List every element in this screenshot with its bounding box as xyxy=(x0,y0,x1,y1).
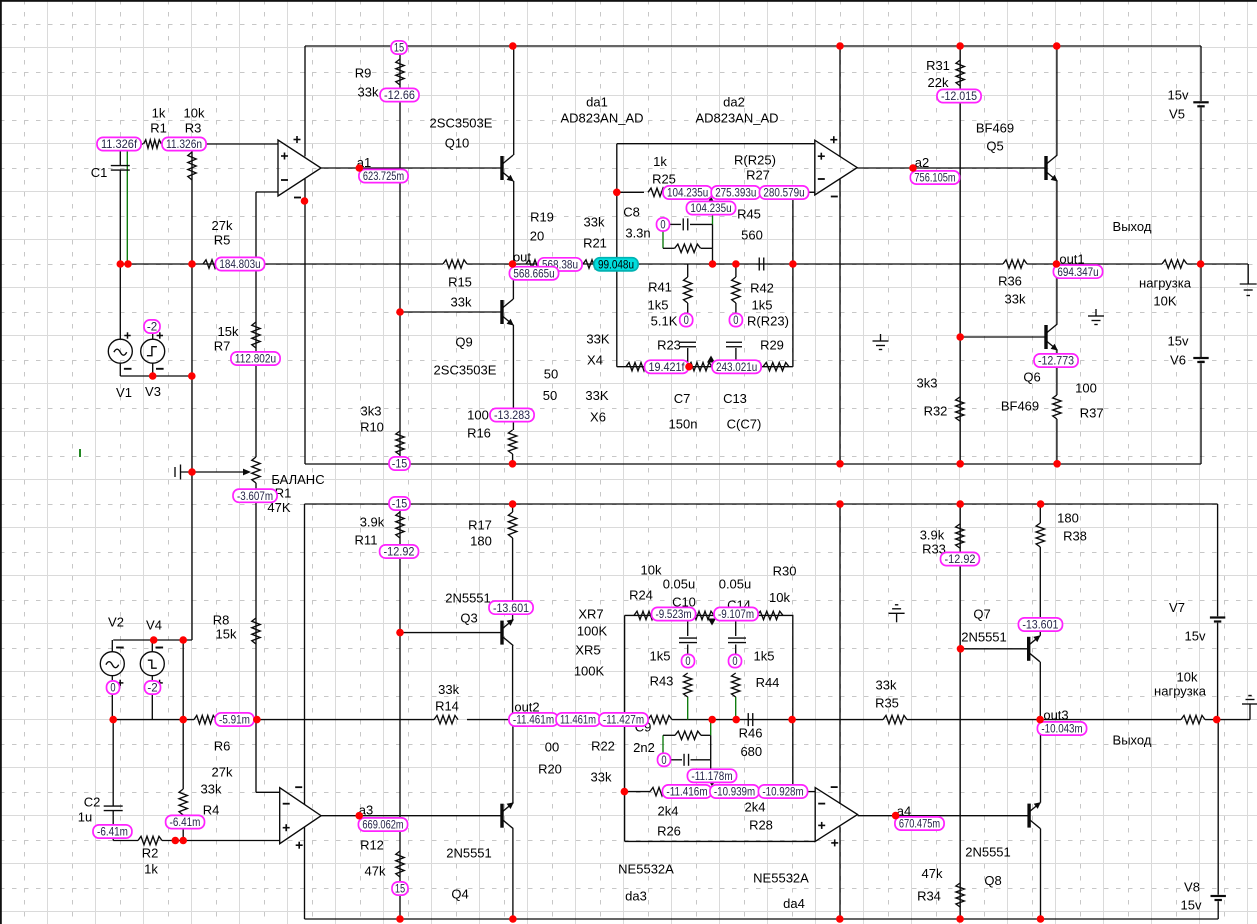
svg-text:R2: R2 xyxy=(142,846,159,861)
wire R4 column upper xyxy=(182,640,184,789)
text R45 ref xyxy=(737,207,761,222)
svg-text:0: 0 xyxy=(110,681,116,695)
label 99.048u cyan xyxy=(594,258,638,272)
label 280.579u xyxy=(759,186,808,200)
text 15v V7 xyxy=(1185,629,1206,644)
label -11.427m xyxy=(599,713,648,727)
text 100 R16 value xyxy=(467,408,489,423)
resistor R19 20 xyxy=(526,260,550,268)
svg-text:-9.523m: -9.523m xyxy=(655,607,691,621)
svg-text:C7: C7 xyxy=(674,391,691,406)
svg-text:-3.607m: -3.607m xyxy=(237,489,273,503)
node junction dot 12 xyxy=(188,468,196,476)
svg-text:V5: V5 xyxy=(1169,107,1185,122)
svg-text:33k: 33k xyxy=(451,295,472,310)
text 2N5551 Q3 xyxy=(445,591,491,606)
resistor R41 1k5 xyxy=(684,277,692,303)
text R11 ref xyxy=(355,533,378,548)
text 33k R14 value xyxy=(438,682,459,697)
node junction dot 15 xyxy=(150,636,158,644)
wire Q6 emitter to R37 xyxy=(1056,350,1058,395)
svg-text:-11.416m: -11.416m xyxy=(666,785,707,799)
svg-text:184.803u: 184.803u xyxy=(219,257,260,271)
transistor Q10 2SC3503E xyxy=(502,155,514,182)
wire R45 row left xyxy=(663,247,675,249)
node junction dot 27 xyxy=(1053,260,1061,268)
text R5 ref xyxy=(214,233,231,248)
svg-text:V4: V4 xyxy=(146,618,162,633)
text Выход ch2 xyxy=(1113,733,1152,748)
wire V1-V3 bottom row xyxy=(120,375,192,377)
resistor R16 100 xyxy=(508,430,516,454)
wire op-amp da4 supply upper xyxy=(839,504,841,804)
text 2N5551 Q8 xyxy=(965,845,1011,860)
svg-text:C2: C2 xyxy=(84,795,101,810)
node arrow marker da1 upper xyxy=(707,197,715,204)
node junction dot 21 xyxy=(709,260,717,268)
text C7 ref xyxy=(674,391,691,406)
wire R3 node to op-amp a1 +in xyxy=(206,143,278,145)
resistor R38 180 xyxy=(1036,523,1044,547)
wire ch1 box left edge lower xyxy=(304,179,306,464)
wire R4 column lower xyxy=(182,815,184,841)
text R1 pot ref xyxy=(275,486,292,501)
svg-text:2N5551: 2N5551 xyxy=(446,846,492,861)
node junction dot 53 xyxy=(179,837,187,845)
svg-text:0: 0 xyxy=(733,313,739,327)
svg-text:-2: -2 xyxy=(147,320,157,334)
resistor R15 33k xyxy=(443,260,467,268)
node junction dot 30 xyxy=(836,460,844,468)
wire R46 row left green xyxy=(662,735,664,753)
text X6 ref xyxy=(590,410,606,425)
wire Q8 collector to +15 rail xyxy=(1040,829,1042,919)
wire V5-V6 supply column lower xyxy=(1200,363,1202,464)
text AD823AN_AD da2 xyxy=(695,111,778,126)
text R27 ref xyxy=(746,168,770,183)
svg-text:694.347u: 694.347u xyxy=(1057,265,1098,279)
wire C8 to node green xyxy=(712,214,714,225)
node junction dot 2 xyxy=(124,260,132,268)
svg-text:0.05u: 0.05u xyxy=(663,577,696,592)
wire R7-R8 column xyxy=(255,483,257,792)
node junction dot 46 xyxy=(788,716,796,724)
svg-text:-6.41m: -6.41m xyxy=(170,815,201,829)
text a3 node xyxy=(359,803,373,818)
svg-text:-12.66: -12.66 xyxy=(384,88,415,102)
svg-text:R45: R45 xyxy=(737,207,761,222)
wire out row ch1 left segment xyxy=(120,263,443,265)
svg-text:2N5551: 2N5551 xyxy=(445,591,491,606)
text R26 ref xyxy=(657,824,681,839)
label 669.062m xyxy=(358,818,407,832)
text NE5532A da3 xyxy=(618,862,674,877)
wire balance wiper arrowhead xyxy=(243,469,251,476)
svg-text:670.475m: 670.475m xyxy=(899,817,940,831)
svg-text:R22: R22 xyxy=(591,739,615,754)
node junction dot 28 xyxy=(1197,260,1205,268)
node junction dot 41 xyxy=(956,915,964,923)
node junction dot 37 xyxy=(396,629,404,637)
resistor R46 680 xyxy=(675,731,701,739)
svg-text:R15: R15 xyxy=(448,275,472,290)
node junction dot 10 xyxy=(396,308,404,316)
node junction dot 18 xyxy=(179,716,187,724)
label 0 C14 xyxy=(729,654,742,668)
label -9.107m xyxy=(714,607,758,621)
svg-text:100: 100 xyxy=(1075,381,1097,396)
transistor Q7 2N5551 xyxy=(1029,635,1041,662)
svg-text:R32: R32 xyxy=(924,404,948,419)
text R34 ref xyxy=(917,889,941,904)
node junction dot 39 xyxy=(509,915,517,923)
label 184.803u xyxy=(215,257,264,271)
wire out3 row xyxy=(907,719,1181,721)
battery V7 15v xyxy=(1210,618,1225,622)
label 0 V2 xyxy=(107,681,120,695)
svg-text:XR5: XR5 xyxy=(575,643,600,658)
node junction dot 11 xyxy=(509,260,517,268)
svg-text:33k: 33k xyxy=(591,770,612,785)
svg-text:R36: R36 xyxy=(998,274,1022,289)
wire R2 to a3 +in xyxy=(162,840,280,842)
text XR7 xyxy=(578,607,603,622)
text Выход ch1 xyxy=(1113,219,1152,234)
text 15k R8 value xyxy=(216,627,237,642)
wire R25 row left xyxy=(617,191,644,193)
node junction dot 42 xyxy=(1037,915,1045,923)
resistor R24 10k xyxy=(634,611,658,619)
svg-text:R(R23): R(R23) xyxy=(747,314,789,329)
svg-text:15v: 15v xyxy=(1168,334,1189,349)
svg-text:00: 00 xyxy=(545,740,559,755)
svg-text:Q7: Q7 xyxy=(973,607,990,622)
wire R42 cap to bottom row xyxy=(735,348,737,367)
text 2SC3503E Q10 xyxy=(430,116,493,131)
text R19 ref xyxy=(530,210,554,225)
wire V2 top lead xyxy=(111,640,113,652)
text C14 ref xyxy=(727,598,751,613)
wire -in node column da3 xyxy=(792,615,794,786)
node junction dot 40 xyxy=(836,915,844,923)
svg-text:AD823AN_AD: AD823AN_AD xyxy=(560,111,643,126)
text 33k R15 value xyxy=(451,295,472,310)
resistor R35 33k xyxy=(883,715,907,723)
svg-text:-12.92: -12.92 xyxy=(384,545,415,559)
node arrow marker da3 upper xyxy=(708,619,716,626)
text C9 ref xyxy=(635,720,652,735)
svg-text:33k: 33k xyxy=(1005,292,1026,307)
svg-text:10k: 10k xyxy=(184,106,205,121)
node junction dot 16 xyxy=(179,636,187,644)
wire R43 to out2 row green xyxy=(687,697,689,720)
svg-text:R34: R34 xyxy=(917,889,941,904)
resistor R21 33k xyxy=(583,260,607,268)
text Q5 ref xyxy=(986,139,1003,154)
label 11.461m xyxy=(556,713,600,727)
wire Q9 base wire xyxy=(400,311,502,313)
svg-text:180: 180 xyxy=(1057,511,1079,526)
svg-text:-6.41m: -6.41m xyxy=(97,825,128,839)
text 2N5551 Q4 xyxy=(446,846,492,861)
text R17 ref xyxy=(468,518,492,533)
svg-text:15v: 15v xyxy=(1185,629,1206,644)
svg-text:623.725m: 623.725m xyxy=(363,169,404,183)
resistor R43 1k5 xyxy=(684,673,692,697)
svg-text:0: 0 xyxy=(661,753,667,767)
text 47K pot value xyxy=(267,500,290,515)
capacitor C2 xyxy=(104,806,123,811)
text 2k4 R28 value xyxy=(745,800,766,815)
label -10.043m xyxy=(1037,722,1086,736)
svg-text:R14: R14 xyxy=(435,699,459,714)
schematic sheet border left xyxy=(0,0,2,924)
wire da3 net top row xyxy=(625,614,794,616)
svg-text:10k: 10k xyxy=(769,590,790,605)
text C2 ref xyxy=(84,795,101,810)
node junction dot 14 xyxy=(188,372,196,380)
svg-text:R28: R28 xyxy=(749,818,773,833)
svg-text:R(R25): R(R25) xyxy=(734,153,776,168)
wire Q5 collector column xyxy=(1056,46,1058,155)
svg-text:1k: 1k xyxy=(144,862,158,877)
text 150n C7 value xyxy=(669,417,698,432)
wire R46 row right lead xyxy=(701,734,711,736)
node junction dot 9 xyxy=(1053,42,1061,50)
svg-text:R44: R44 xyxy=(756,675,780,690)
svg-text:1k5: 1k5 xyxy=(754,649,775,664)
resistor R12 47k xyxy=(396,851,404,877)
text X4 ref xyxy=(587,353,603,368)
node junction dot 29 xyxy=(509,460,517,468)
svg-text:560: 560 xyxy=(741,228,763,243)
capacitor C9 2n2 xyxy=(684,754,689,766)
svg-text:NE5532A: NE5532A xyxy=(753,871,809,886)
node junction dot 13 xyxy=(149,372,157,380)
label 11.326f xyxy=(97,137,141,151)
svg-text:275.393u: 275.393u xyxy=(715,186,756,200)
text 10k R30 value xyxy=(769,590,790,605)
text C13 ref xyxy=(723,391,747,406)
text out node xyxy=(513,250,531,265)
svg-text:V1: V1 xyxy=(116,385,132,400)
svg-text:100K: 100K xyxy=(577,624,608,639)
text da4 ref xyxy=(783,896,805,911)
svg-text:Q5: Q5 xyxy=(986,139,1003,154)
text 100 R37 value xyxy=(1075,381,1097,396)
wire green tick xyxy=(79,449,81,457)
text 1k R1 value xyxy=(152,106,166,121)
label -2 V4 xyxy=(145,681,161,695)
label 694.347u xyxy=(1053,265,1102,279)
text da2 ref xyxy=(723,95,745,110)
svg-text:-10.928m: -10.928m xyxy=(762,785,803,799)
svg-text:1k5: 1k5 xyxy=(752,298,773,313)
text 2N5551 Q7 xyxy=(961,630,1007,645)
svg-text:27k: 27k xyxy=(212,218,233,233)
text out1 node xyxy=(1059,252,1084,267)
text 1k5 R42 value xyxy=(752,298,773,313)
text 560 R45 value xyxy=(741,228,763,243)
label -13.283 xyxy=(490,408,534,422)
text 3.9k R11 value xyxy=(360,515,385,530)
label 19.421f xyxy=(645,360,689,374)
wire V2 bottom lead xyxy=(111,676,113,720)
wire a3 output row xyxy=(321,815,502,817)
resistor R6 27k xyxy=(194,715,216,723)
text out2 node xyxy=(514,700,539,715)
wire Q6 base wire xyxy=(960,336,1046,338)
svg-text:-11.461m: -11.461m xyxy=(513,713,554,727)
label 568.38u xyxy=(538,258,582,272)
ground floating ch1 mid xyxy=(873,334,889,350)
svg-text:-12.773: -12.773 xyxy=(1038,354,1074,368)
label -12.92 R11 xyxy=(380,545,419,559)
label -10.939m xyxy=(710,785,759,799)
svg-text:C13: C13 xyxy=(723,391,747,406)
wire C9 left lead xyxy=(670,759,682,761)
label 243.021u xyxy=(712,360,761,374)
svg-text:R35: R35 xyxy=(875,696,899,711)
svg-text:756.105m: 756.105m xyxy=(914,171,955,185)
label -15 ch2 rail xyxy=(389,497,410,511)
svg-text:1k: 1k xyxy=(653,154,667,169)
wire R37 to -15 rail xyxy=(1056,419,1058,464)
battery V8 15v xyxy=(1211,896,1226,900)
text 33k R4 value xyxy=(201,782,222,797)
svg-text:R27: R27 xyxy=(746,168,770,183)
node junction dot 26 xyxy=(956,333,964,341)
label 756.105m xyxy=(910,171,959,185)
wire da3 net bottom edge to a4 +in xyxy=(625,840,816,842)
wire V2-V4 top row xyxy=(113,639,192,641)
svg-text:0: 0 xyxy=(685,654,691,668)
text R6 ref xyxy=(214,739,231,754)
text R14 ref xyxy=(435,699,459,714)
wire V7 supply column mid xyxy=(1217,623,1219,720)
text 00 R20 value xyxy=(545,740,559,755)
wire R17 column top xyxy=(512,504,514,512)
svg-text:11.461m: 11.461m xyxy=(560,713,596,727)
text R7 ref xyxy=(214,339,231,354)
svg-text:2SC3503E: 2SC3503E xyxy=(434,363,497,378)
wire Q3 collector to out2 xyxy=(512,646,514,720)
text нагрузка ch1 xyxy=(1139,276,1192,291)
wire da1 net bottom row xyxy=(617,366,793,368)
text 20 R19 value xyxy=(530,229,544,244)
text 0.05u C14 value xyxy=(719,577,752,592)
resistor R22 33k xyxy=(648,715,672,723)
svg-text:Q3: Q3 xyxy=(460,611,477,626)
svg-text:3.9k: 3.9k xyxy=(360,515,385,530)
svg-text:R7: R7 xyxy=(214,339,231,354)
svg-text:-15: -15 xyxy=(392,497,408,511)
label -13.601 Q3 xyxy=(489,601,533,615)
source V2 sine xyxy=(100,648,124,687)
svg-text:243.021u: 243.021u xyxy=(716,360,757,374)
ground at out1 load xyxy=(1240,264,1257,296)
resistor R11 3.9k xyxy=(396,512,404,538)
wire C2 bottom lead xyxy=(112,811,114,841)
svg-text:-13.601: -13.601 xyxy=(493,601,529,615)
svg-text:100K: 100K xyxy=(574,664,605,679)
svg-text:X6: X6 xyxy=(590,410,606,425)
node junction dot 4 xyxy=(356,164,364,172)
svg-text:R24: R24 xyxy=(629,588,653,603)
svg-text:R26: R26 xyxy=(657,824,681,839)
resistor R33 3.9k xyxy=(956,524,964,548)
text 47k R12 value xyxy=(365,864,386,879)
svg-text:R31: R31 xyxy=(926,58,950,73)
node junction dot 43 xyxy=(621,788,629,796)
label 15 bottom xyxy=(392,882,408,896)
ground floating ch1 right xyxy=(1088,309,1104,325)
transistor Q5 BF469 xyxy=(1046,155,1058,182)
text 0.05u C10 value xyxy=(663,577,696,592)
text Q6 ref xyxy=(1023,370,1040,385)
svg-text:15k: 15k xyxy=(216,627,237,642)
wire R42 branch upper xyxy=(735,264,737,277)
wire C1 top lead xyxy=(119,150,121,165)
node arrow marker da3 lower xyxy=(708,780,716,787)
svg-text:R10: R10 xyxy=(360,420,384,435)
svg-text:NE5532A: NE5532A xyxy=(618,862,674,877)
node junction dot 35 xyxy=(956,500,964,508)
node junction dot 17 xyxy=(109,716,117,724)
svg-text:BF469: BF469 xyxy=(1001,399,1039,414)
svg-text:R1: R1 xyxy=(150,121,167,136)
svg-text:R6: R6 xyxy=(214,739,231,754)
text R29 ref xyxy=(760,338,784,353)
wire C9 to label stub xyxy=(710,760,712,770)
svg-text:R11: R11 xyxy=(355,533,378,548)
text R30 ref xyxy=(773,564,797,579)
capacitor C1 xyxy=(111,166,130,171)
wire R41 branch mid xyxy=(687,303,689,314)
text БАЛАНС xyxy=(271,472,324,487)
wire R38 column top xyxy=(1039,504,1041,523)
wire R17 to Q3 emitter xyxy=(512,538,514,620)
wire out row ch1 right xyxy=(1027,263,1162,265)
wire balance wiper xyxy=(181,471,248,473)
wire R25 row to a2 -in xyxy=(808,191,815,193)
text 180 R17 value xyxy=(470,534,492,549)
transistor Q3 2N5551 xyxy=(502,619,514,646)
label -15 ch1 rail xyxy=(389,457,410,471)
svg-text:33K: 33K xyxy=(585,388,608,403)
wire C10 branch mid xyxy=(687,645,689,656)
wire -15 bottom rail ch1 xyxy=(305,463,1201,465)
svg-text:150n: 150n xyxy=(669,417,698,432)
wire ch1 box left edge upper xyxy=(304,46,306,156)
text V5 ref xyxy=(1169,107,1185,122)
svg-text:-5.91m: -5.91m xyxy=(219,713,250,727)
text BF469 Q5 xyxy=(976,121,1014,136)
svg-text:R29: R29 xyxy=(760,338,784,353)
svg-text:33k: 33k xyxy=(876,678,897,693)
svg-text:1k5: 1k5 xyxy=(648,298,669,313)
svg-text:568.665u: 568.665u xyxy=(513,267,554,281)
text 10k load ch2 xyxy=(1177,670,1198,685)
text C10 ref xyxy=(672,595,696,610)
resistor load нагрузка 10K ch1 xyxy=(1162,260,1187,268)
wire C9 right lead xyxy=(691,759,711,761)
text 47k R34 value xyxy=(922,866,943,881)
text V3 ref xyxy=(145,384,161,399)
text R9 ref xyxy=(355,66,372,81)
svg-text:-11.427m: -11.427m xyxy=(603,713,644,727)
text 33k R9 value xyxy=(358,85,379,100)
